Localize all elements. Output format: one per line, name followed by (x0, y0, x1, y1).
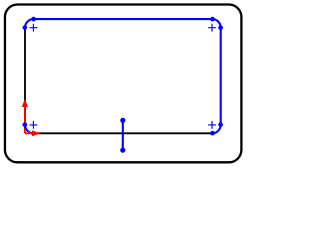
wire: top edge (blue) (34, 18, 213, 20)
border frame (5, 5, 241, 163)
node: top-right vertical junction (218, 25, 223, 30)
wire: bottom-right corner arc (212, 125, 221, 134)
node: bottom-left vertical junction (22, 122, 27, 127)
wire: top-left corner arc (25, 19, 34, 28)
node: top-left horizontal junction (31, 17, 36, 22)
node: top-left vertical junction (22, 25, 27, 30)
wire: bottom center vertical segment (blue) (122, 120, 124, 150)
wire: bottom edge (black) (34, 132, 213, 134)
wire: top-right corner arc (212, 19, 221, 28)
marker: bottom-left corner center cross (30, 121, 38, 129)
marker: top-right corner center cross (208, 24, 216, 32)
node: bottom-right vertical junction (218, 122, 223, 127)
wire: bottom-left corner arc (25, 125, 34, 134)
node: bottom-right horizontal junction (210, 131, 215, 136)
wire: left edge (black) (24, 28, 26, 125)
node: segment top end (120, 118, 125, 123)
marker: top-left corner center cross (30, 24, 38, 32)
marker: bottom-right corner center cross (208, 121, 216, 129)
node: segment bottom end (120, 148, 125, 153)
node: top-right horizontal junction (210, 17, 215, 22)
node: bottom-left horizontal junction (under red arrow) (31, 131, 36, 136)
wire: right edge (blue) (220, 28, 222, 125)
arrow: vertical axis (red, up) (22, 99, 28, 134)
arrow: horizontal axis (red, right) (25, 130, 40, 136)
